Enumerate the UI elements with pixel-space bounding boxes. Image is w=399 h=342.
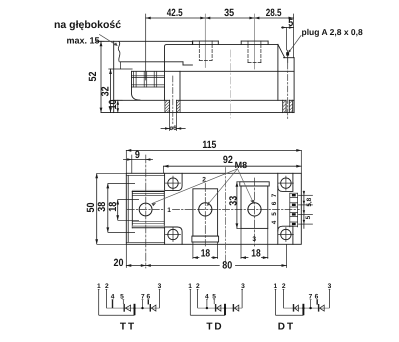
bottom-right ear slot <box>278 226 293 244</box>
svg-text:TT: TT <box>120 322 136 333</box>
32 reference line <box>109 68 133 70</box>
svg-text:115: 115 <box>202 139 216 151</box>
dimension 18 left <box>117 200 119 221</box>
svg-text:1: 1 <box>97 283 101 290</box>
gate pin 4 <box>112 300 114 309</box>
leader max.15 <box>100 35 118 46</box>
svg-text:1: 1 <box>188 283 192 290</box>
dimension 5 (top right) <box>282 26 294 50</box>
svg-text:5: 5 <box>212 294 216 301</box>
svg-text:7: 7 <box>271 193 278 197</box>
base top line <box>114 99 170 101</box>
top-right ear slot <box>278 173 293 191</box>
dimension 52 <box>96 41 104 112</box>
dimension 33 <box>236 182 242 229</box>
svg-text:max. 15: max. 15 <box>67 36 100 46</box>
svg-text:4: 4 <box>111 294 115 301</box>
svg-text:28.5: 28.5 <box>266 7 282 19</box>
DT pin 1 stub <box>275 289 277 315</box>
svg-text:5: 5 <box>288 17 293 29</box>
terminal shelf top <box>284 57 295 59</box>
main parting line body/base <box>132 70 295 72</box>
pocket inner wall with rounded corner <box>165 45 193 101</box>
TD main wire <box>198 307 243 309</box>
svg-text:92: 92 <box>223 154 233 166</box>
right edge <box>293 58 295 113</box>
TT junction dot <box>133 307 135 309</box>
DT pin 2 stub <box>282 289 284 308</box>
right column boundary <box>277 173 279 244</box>
plug cap 2 on top <box>241 41 268 44</box>
plan view texts <box>85 139 313 272</box>
body top edge <box>192 43 278 45</box>
dimension 18 middle plug <box>193 242 218 259</box>
dimension 18 right plug <box>241 228 268 259</box>
svg-text:DT: DT <box>278 322 295 333</box>
svg-text:3: 3 <box>252 236 256 243</box>
pin 1 <box>98 289 100 315</box>
svg-text:6: 6 <box>146 294 150 301</box>
hidden plug cavity 1 (dashed) <box>199 44 212 60</box>
aux cathode pin 5 <box>122 300 124 304</box>
svg-text:18: 18 <box>251 248 261 260</box>
leader plug A <box>289 36 301 53</box>
TD aux cathode pin 5 stub <box>213 300 215 305</box>
svg-text:TD: TD <box>206 322 223 333</box>
left mounting hole in base (hatched) <box>165 100 180 112</box>
thyristor TD <box>215 304 217 312</box>
thyristor 1 <box>123 304 125 312</box>
svg-text:6: 6 <box>271 201 278 205</box>
DT pin 3 stub <box>329 289 331 308</box>
lid inner offset lines <box>126 174 164 176</box>
svg-text:5: 5 <box>271 212 278 216</box>
thyristor DT <box>318 304 320 312</box>
svg-text:plug A 2,8 x 0,8: plug A 2,8 x 0,8 <box>302 27 364 37</box>
dimension 9 <box>124 155 153 173</box>
module lid top edge + 52 extension <box>96 40 192 42</box>
housing inner wall rounded into base <box>132 71 141 100</box>
lid parting line left <box>121 61 184 63</box>
svg-text:32: 32 <box>100 86 112 96</box>
hidden plug cavity 2 (dashed) <box>248 44 261 62</box>
bolt shaft wall right x=180 <box>179 71 181 100</box>
left edge <box>113 41 115 112</box>
diode DT <box>293 304 295 312</box>
svg-text:2: 2 <box>282 283 286 290</box>
svg-text:9: 9 <box>135 149 140 161</box>
svg-text:2: 2 <box>202 177 206 184</box>
side view texts <box>54 7 363 132</box>
module horizontal centerline <box>127 208 163 210</box>
dimension 10 <box>114 100 123 112</box>
TD gate pin 4 stub <box>206 300 208 309</box>
pin 3 <box>159 289 161 308</box>
svg-text:1: 1 <box>167 207 171 214</box>
step lid to body top <box>191 41 193 44</box>
extension line right edge x=293.5 <box>293 14 295 58</box>
ear bolt circles with crosses <box>166 176 294 241</box>
base bottom <box>101 112 294 114</box>
svg-text:7: 7 <box>141 294 145 301</box>
faston tab dimension ticks and 5,8 / 5 dims <box>299 191 313 228</box>
pin 6 <box>147 300 149 305</box>
bottom-left ear slot <box>165 227 183 244</box>
svg-text:52: 52 <box>87 71 99 81</box>
svg-text:4: 4 <box>271 220 278 224</box>
TD bottom rail wire <box>190 314 225 316</box>
chamfer top right <box>278 44 285 57</box>
phi6 dimension under left hole <box>161 113 185 131</box>
inner corner vertical x=277.9 <box>277 44 279 100</box>
svg-text:4: 4 <box>205 294 209 301</box>
right plug (terminal 3) <box>240 178 269 247</box>
svg-text:1: 1 <box>273 283 277 290</box>
left control block with serrations <box>132 190 164 228</box>
svg-text:20: 20 <box>114 257 124 269</box>
diode TD <box>232 304 234 312</box>
plug cap 1 on top <box>193 41 219 44</box>
junction bar DT <box>302 304 304 315</box>
extension centerline of plug 2 x=254.4 <box>253 14 255 69</box>
fast-on terminal mark <box>286 52 289 55</box>
svg-text:5: 5 <box>305 215 312 219</box>
wavy break line (na glebokosc) <box>118 42 120 62</box>
pin 7 DT <box>310 300 312 309</box>
TD pin 3 stub <box>241 289 243 308</box>
svg-text:2: 2 <box>196 283 200 290</box>
schematic texts <box>97 283 332 332</box>
dimension chain 42.5 / 35 / 28.5 top <box>146 17 294 20</box>
svg-text:35: 35 <box>224 7 234 19</box>
dimension 92 <box>164 165 302 174</box>
dimension 38 <box>107 183 109 232</box>
svg-text:5: 5 <box>120 294 124 301</box>
top-left ear slot <box>165 173 183 190</box>
control pin block in pocket (section) <box>132 71 165 87</box>
pin 2 <box>105 289 107 308</box>
dimension 20 <box>126 244 146 267</box>
svg-text:10: 10 <box>107 99 119 109</box>
dimension 80 <box>146 244 287 267</box>
middle plug (terminal 2) <box>192 184 219 247</box>
svg-text:80: 80 <box>222 260 232 272</box>
svg-text:33: 33 <box>227 196 239 206</box>
M8 leader lines <box>152 169 254 206</box>
faston tabs column right <box>290 193 298 227</box>
dimension 32 <box>109 69 112 113</box>
svg-text:3: 3 <box>328 283 332 290</box>
TD circuit <box>189 289 243 315</box>
svg-text:M8: M8 <box>235 160 248 170</box>
junction bar <box>134 304 136 315</box>
DT bottom rail wire <box>276 314 304 316</box>
svg-text:2: 2 <box>105 283 109 290</box>
extension line / centerline of control pins x=145.7 <box>145 14 147 80</box>
main wire <box>106 307 159 309</box>
pin 7 <box>142 300 144 309</box>
right mounting hole in base <box>283 100 293 112</box>
TD pin 2 stub <box>197 289 199 308</box>
TT circuit <box>98 289 161 315</box>
svg-text:3: 3 <box>158 283 162 290</box>
dimension 50 <box>96 173 98 244</box>
svg-text:7: 7 <box>309 294 313 301</box>
dimension 115 <box>126 149 301 173</box>
right hole centerline / faston axis <box>287 50 289 62</box>
bottom rail to junction <box>99 314 135 316</box>
svg-text:18: 18 <box>201 248 211 260</box>
thyristor 2 <box>149 304 151 312</box>
DT circuit <box>275 289 331 315</box>
body outline <box>126 173 301 244</box>
svg-text:ø6: ø6 <box>169 125 177 132</box>
symmetry centerline between holes <box>230 50 232 118</box>
svg-text:na głębokość: na głębokość <box>54 19 121 31</box>
svg-text:3: 3 <box>241 283 245 290</box>
junction bar TD <box>224 304 226 315</box>
plan view vertical centerline between plugs <box>225 168 227 264</box>
svg-text:6: 6 <box>315 294 319 301</box>
vertical centerline left block <box>145 155 147 268</box>
svg-text:42.5: 42.5 <box>167 7 183 19</box>
extension centerline of plug 1 x=205.3 <box>204 14 206 68</box>
left hole centerline <box>172 76 174 124</box>
svg-text:5,8: 5,8 <box>306 197 313 206</box>
DT main wire <box>283 307 329 309</box>
TD pin 1 stub <box>189 289 191 315</box>
pin 6 DT <box>316 300 318 305</box>
